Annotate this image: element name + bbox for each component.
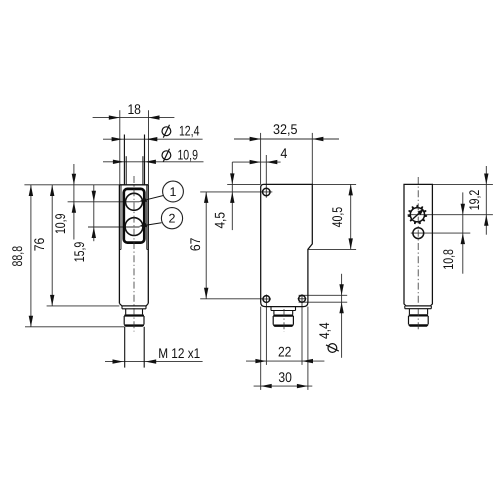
- svg-text:30: 30: [278, 369, 292, 385]
- svg-text:15,9: 15,9: [71, 242, 87, 263]
- svg-text:18: 18: [127, 101, 141, 117]
- svg-text:10,9: 10,9: [52, 213, 68, 234]
- svg-text:M 12 x1: M 12 x1: [158, 345, 200, 361]
- svg-text:88,8: 88,8: [9, 246, 25, 267]
- svg-text:19,2: 19,2: [466, 190, 482, 211]
- svg-text:12,4: 12,4: [179, 123, 200, 139]
- svg-text:67: 67: [187, 237, 203, 251]
- svg-text:2: 2: [169, 212, 176, 226]
- svg-text:4: 4: [280, 145, 287, 161]
- svg-text:22: 22: [278, 344, 292, 360]
- svg-text:32,5: 32,5: [273, 121, 298, 137]
- svg-text:4,4: 4,4: [316, 322, 332, 339]
- svg-text:76: 76: [31, 238, 47, 252]
- svg-text:10,8: 10,8: [440, 249, 456, 270]
- svg-text:10,9: 10,9: [177, 147, 198, 163]
- svg-text:1: 1: [170, 185, 177, 199]
- svg-text:4,5: 4,5: [211, 212, 227, 229]
- svg-text:40,5: 40,5: [329, 207, 345, 228]
